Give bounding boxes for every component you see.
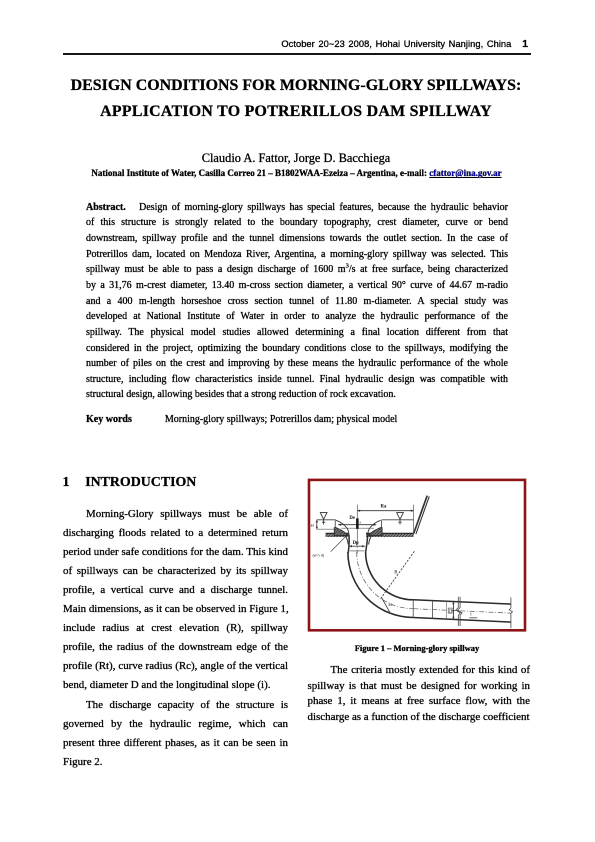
svg-text:D: D	[449, 608, 452, 613]
centre pier bar	[356, 518, 359, 529]
svg-text:45: 45	[388, 603, 392, 607]
affiliation	[33, 168, 560, 179]
Ra extension line	[413, 505, 415, 533]
svg-text:Ra: Ra	[381, 505, 387, 510]
R radius line	[381, 551, 415, 598]
shaft wall right	[366, 535, 368, 553]
tunnel end break	[509, 597, 512, 628]
ground hatch right	[366, 533, 414, 537]
vertical edge left lip	[334, 520, 336, 528]
D dimension	[445, 601, 447, 619]
section tick 1	[412, 600, 414, 618]
right column paragraph	[308, 663, 531, 725]
bend inner arc	[366, 552, 414, 600]
funnel outer wall left	[345, 535, 348, 545]
svg-text:H: H	[311, 523, 314, 528]
water line left	[317, 519, 336, 521]
hillside slope line	[414, 496, 428, 534]
figure caption	[306, 643, 528, 653]
45 deg tick	[382, 598, 391, 614]
left crest wedge	[334, 528, 348, 536]
H dimension left	[316, 520, 318, 529]
ground hatch left	[326, 533, 349, 537]
bend centreline arc	[357, 552, 414, 609]
left column	[63, 505, 288, 772]
svg-text:De: De	[349, 516, 355, 521]
header rule	[63, 53, 531, 55]
centreline upper	[356, 505, 358, 519]
svg-text:s: s	[360, 520, 362, 525]
tunnel centreline	[413, 609, 510, 613]
section tick 2	[432, 601, 434, 619]
break mark	[456, 597, 460, 626]
vertical edge right lip	[381, 520, 383, 528]
abstract	[86, 200, 508, 404]
water symbol right	[397, 513, 404, 520]
tunnel bottom wall	[413, 618, 511, 623]
figure border box	[309, 480, 525, 630]
tunnel top wall	[413, 600, 511, 604]
centreline shaft dash-dot	[356, 541, 358, 554]
bend outer arc	[348, 552, 414, 618]
lower crest line	[317, 528, 341, 530]
Ra dimension	[357, 510, 413, 512]
crest profile right	[368, 520, 381, 534]
header line	[0, 39, 528, 50]
ground line right	[366, 532, 414, 534]
water symbol left	[320, 513, 327, 520]
water line right	[382, 519, 414, 521]
crest profile left	[336, 520, 349, 534]
title	[33, 73, 559, 125]
shaft wall left	[348, 535, 349, 553]
svg-text:i: i	[470, 613, 472, 618]
crest detail line	[341, 527, 374, 529]
svg-text:(w h d): (w h d)	[313, 553, 325, 557]
svg-text:Dp: Dp	[353, 541, 359, 546]
key words	[86, 412, 508, 428]
right crest wedge	[368, 528, 382, 536]
De dimension	[338, 524, 376, 526]
ground line left	[326, 532, 349, 534]
section heading	[63, 474, 197, 492]
authors	[33, 150, 559, 166]
funnel outer wall right	[369, 535, 372, 545]
